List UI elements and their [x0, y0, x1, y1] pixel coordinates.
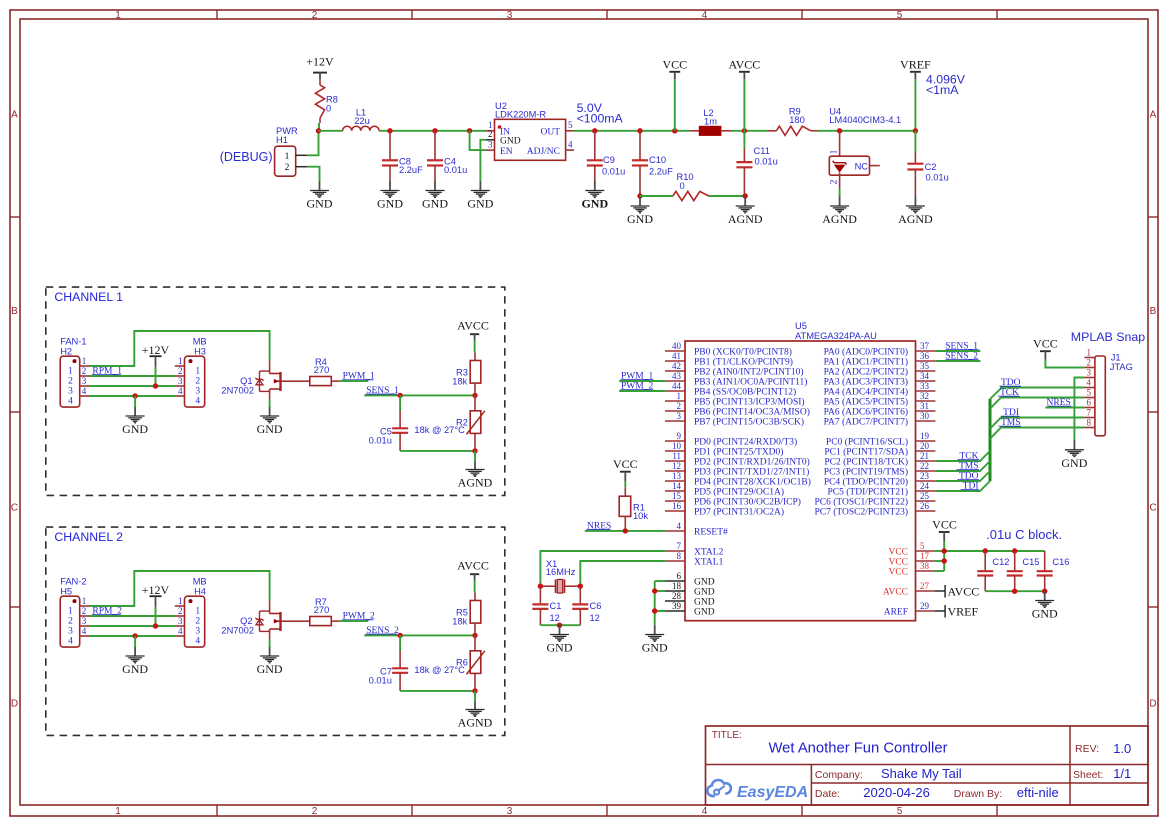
ground AGND under C11: [744, 196, 746, 206]
svg-text:C1: C1: [550, 601, 562, 611]
ground: [458, 710, 493, 730]
svg-text:4: 4: [178, 626, 183, 636]
svg-text:0.01u: 0.01u: [369, 676, 392, 686]
svg-text:H2: H2: [60, 347, 72, 357]
svg-text:28: 28: [672, 591, 682, 601]
svg-text:20: 20: [920, 441, 930, 451]
svg-text:29: 29: [920, 601, 930, 611]
svg-text:OUT: OUT: [540, 128, 560, 138]
ground: [422, 191, 448, 211]
label 5.0V <100mA: [577, 101, 624, 126]
svg-text:TITLE:: TITLE:: [712, 730, 742, 741]
svg-text:9: 9: [677, 431, 682, 441]
ground: [122, 416, 148, 436]
node GND pin18: [652, 588, 657, 593]
wire H1 pin2 to ground: [307, 167, 320, 181]
wire L2 to AVCC node: [731, 130, 768, 132]
svg-text:0.01u: 0.01u: [926, 172, 949, 182]
svg-text:3: 3: [178, 616, 183, 626]
svg-text:3: 3: [677, 411, 682, 421]
svg-text:PB3 (AIN1/OC0A/PCINT11): PB3 (AIN1/OC0A/PCINT11): [694, 377, 807, 388]
U5 pin 14 PD5: [665, 481, 784, 498]
ground AGND under U4: [839, 197, 841, 207]
svg-text:PB4 (SS/OC0B/PCINT12): PB4 (SS/OC0B/PCINT12): [694, 387, 796, 398]
svg-text:14: 14: [672, 481, 682, 491]
connector H4 (MB): [175, 577, 207, 647]
svg-text:PA3 (ADC3/PCINT3): PA3 (ADC3/PCINT3): [824, 377, 908, 388]
wire crystal caps bottom: [540, 624, 580, 626]
U5 pin 25 PC6: [814, 491, 935, 508]
svg-text:3: 3: [68, 387, 73, 397]
svg-text:PC2 (PCINT18/TCK): PC2 (PCINT18/TCK): [824, 457, 908, 468]
node VREF/C2 junction: [913, 128, 918, 133]
svg-text:42: 42: [672, 361, 681, 371]
wire TCK J1 side: [990, 398, 1084, 409]
wire RPM_2: [89, 615, 174, 617]
ground: [467, 191, 493, 211]
U5 pin 35 PA2: [824, 361, 936, 378]
wire AVCC drop: [743, 72, 745, 131]
ground: [377, 191, 403, 211]
U5 pin 16 PD7: [665, 501, 784, 518]
svg-text:Wet Another Fun Controller: Wet Another Fun Controller: [768, 741, 947, 757]
svg-text:PB1 (T1/CLKO/PCINT9): PB1 (T1/CLKO/PCINT9): [694, 357, 793, 368]
ground under C10: [639, 196, 641, 206]
svg-text:22u: 22u: [354, 116, 370, 126]
U5 pin 36 PA1: [824, 351, 936, 368]
svg-text:PA4 (ADC4/PCINT4): PA4 (ADC4/PCINT4): [824, 387, 908, 398]
svg-text:2.2uF: 2.2uF: [399, 165, 423, 175]
svg-text:PD2 (PCINT/RXD1/26/INT0): PD2 (PCINT/RXD1/26/INT0): [694, 457, 810, 468]
svg-text:15: 15: [672, 491, 682, 501]
node C15 bottom: [1012, 589, 1017, 594]
svg-text:44: 44: [672, 381, 682, 391]
U5 pin 1 PB5: [665, 391, 805, 408]
U5 pin 24 PC5: [828, 481, 936, 498]
wire TMS U5 side: [935, 461, 990, 471]
svg-text:31: 31: [920, 401, 929, 411]
U5 pin 21 PC2: [824, 451, 935, 468]
U5 pin 3 PB7: [665, 411, 804, 428]
resistor R5 18k: [452, 592, 481, 635]
microcontroller U5 ATMEGA324PA-AU: [685, 321, 916, 621]
svg-text:PD6 (PCINT30/OC2B/ICP): PD6 (PCINT30/OC2B/ICP): [694, 497, 801, 508]
U5 pin 6 GND: [665, 571, 715, 588]
node divider junction: [472, 633, 477, 638]
wire to AGND: [474, 451, 476, 461]
svg-text:J1: J1: [1111, 352, 1121, 362]
wire cap bottom to divider bottom: [400, 450, 475, 452]
U5 pin 2 PB6: [665, 401, 810, 418]
svg-text:VCC: VCC: [662, 58, 687, 72]
svg-text:Shake My Tail: Shake My Tail: [881, 766, 962, 781]
svg-text:2: 2: [82, 606, 87, 616]
node ground junction: [132, 633, 137, 638]
svg-text:H5: H5: [60, 587, 72, 597]
svg-text:NC: NC: [855, 161, 869, 171]
power symbol AVCC: [729, 58, 761, 72]
svg-text:33: 33: [920, 381, 930, 391]
ground AGND: [474, 461, 476, 470]
svg-text:1: 1: [195, 607, 200, 617]
wire TCK U5 side: [935, 451, 990, 461]
ground AGND under C2: [914, 197, 916, 207]
wire L1 to U2: [379, 130, 486, 132]
node X1 right: [578, 584, 583, 589]
svg-text:38: 38: [920, 561, 930, 571]
capacitor C12: [977, 551, 1009, 591]
svg-text:2: 2: [178, 606, 183, 616]
svg-text:PA0 (ADC0/PCINT0): PA0 (ADC0/PCINT0): [824, 347, 908, 358]
U5 pin 15 PD6: [665, 491, 801, 508]
svg-text:1: 1: [178, 356, 183, 366]
svg-text:Sheet:: Sheet:: [1073, 769, 1103, 781]
wire Q1 source to ground: [269, 399, 271, 407]
node cap junction: [397, 393, 402, 398]
svg-text:EN: EN: [500, 147, 513, 157]
svg-text:PD0 (PCINT24/RXD0/T3): PD0 (PCINT24/RXD0/T3): [694, 437, 797, 448]
svg-text:C: C: [1149, 503, 1156, 514]
port flag AVCC: [935, 584, 980, 598]
label 4.096V <1mA: [926, 73, 966, 98]
svg-text:5: 5: [568, 120, 573, 130]
wire NRES to J1 pin6: [1045, 407, 1084, 409]
svg-text:34: 34: [920, 371, 930, 381]
wire TDO U5 side: [935, 471, 990, 481]
capacitor C9: [587, 131, 625, 181]
ground: [307, 191, 333, 211]
connector H5 (FAN-2): [60, 577, 89, 647]
svg-text:18: 18: [672, 581, 682, 591]
svg-text:<1mA: <1mA: [926, 83, 959, 97]
svg-text:PA6 (ADC6/PCINT6): PA6 (ADC6/PCINT6): [824, 407, 908, 418]
wire R9 to U4/VREF: [818, 130, 915, 132]
resistor R1 10k: [619, 482, 648, 528]
svg-text:PA2 (ADC2/PCINT2): PA2 (ADC2/PCINT2): [824, 367, 908, 378]
svg-text:0.01u: 0.01u: [444, 165, 467, 175]
wire XTAL1: [580, 561, 665, 586]
wire to ground: [134, 636, 136, 647]
wire C10 to R10: [640, 195, 673, 197]
svg-text:PB6 (PCINT14/OC3A/MISO): PB6 (PCINT14/OC3A/MISO): [694, 407, 810, 418]
svg-text:GND: GND: [257, 662, 283, 676]
svg-text:3: 3: [1087, 368, 1092, 378]
thermistor R2 18k @ 27°C: [414, 395, 484, 451]
svg-text:.01u C block.: .01u C block.: [986, 527, 1062, 542]
svg-text:1m: 1m: [704, 116, 717, 126]
connector J1 JTAG: [1084, 348, 1132, 436]
wire H5 pin1 to Q2 drain: [89, 571, 269, 606]
U5 pin 17 VCC: [888, 551, 934, 568]
transistor Q2 2N7002: [221, 601, 309, 640]
svg-text:2020-04-26: 2020-04-26: [863, 785, 930, 800]
svg-text:XTAL1: XTAL1: [694, 558, 724, 568]
svg-text:2: 2: [1087, 358, 1092, 368]
U5 pin 7 XTAL2: [665, 541, 724, 558]
svg-text:5: 5: [1087, 388, 1092, 398]
svg-text:AGND: AGND: [458, 716, 493, 730]
node C12 top: [983, 548, 988, 553]
wire R10 to AGND node: [709, 195, 746, 197]
wire Q2 source to ground: [269, 639, 271, 647]
svg-text:2: 2: [830, 179, 840, 184]
wire H2 pin1 to Q1 drain: [89, 331, 269, 366]
node AVCC junction: [742, 128, 747, 133]
U5 pin 40 PB0: [665, 341, 792, 358]
svg-text:12: 12: [590, 613, 600, 623]
ground under J1: [1073, 440, 1075, 450]
svg-text:PD7 (PCINT31/OC2A): PD7 (PCINT31/OC2A): [694, 507, 784, 518]
svg-text:XTAL2: XTAL2: [694, 548, 724, 558]
svg-text:2: 2: [285, 163, 290, 173]
resistor R10: [673, 172, 709, 201]
svg-text:5: 5: [897, 10, 903, 21]
wire RPM_1: [89, 375, 174, 377]
svg-text:3: 3: [82, 616, 87, 626]
svg-text:41: 41: [672, 351, 681, 361]
svg-text:2N7002: 2N7002: [221, 626, 254, 636]
svg-text:1: 1: [115, 806, 121, 817]
U5 pin 20 PC1: [824, 441, 935, 458]
wire SENS_1: [364, 394, 475, 396]
svg-text:GND: GND: [694, 578, 715, 588]
svg-text:30: 30: [920, 411, 930, 421]
svg-text:1: 1: [830, 149, 840, 154]
U5 pin 32 PA5: [824, 391, 936, 408]
svg-text:VCC: VCC: [888, 568, 908, 578]
wire SENS_2: [935, 360, 980, 362]
ground: [822, 206, 857, 226]
power symbol VCC at U5 right: [932, 517, 957, 541]
node ground junction: [132, 393, 137, 398]
resistor R7 270: [310, 597, 340, 626]
svg-text:CHANNEL 1: CHANNEL 1: [54, 290, 123, 304]
svg-text:23: 23: [920, 471, 930, 481]
svg-text:AGND: AGND: [728, 212, 763, 226]
svg-text:GND: GND: [547, 641, 573, 655]
svg-text:8: 8: [1087, 418, 1092, 428]
svg-text:Drawn By:: Drawn By:: [954, 788, 1002, 800]
svg-text:18k @ 27°C: 18k @ 27°C: [414, 665, 465, 675]
svg-text:C6: C6: [590, 601, 602, 611]
U5 pin 4 RESET#: [665, 521, 728, 538]
svg-text:AVCC: AVCC: [948, 584, 980, 598]
wire SENS_2: [364, 634, 475, 636]
U5 pin 29 AREF: [884, 601, 935, 618]
ground: [898, 206, 933, 226]
svg-text:GND: GND: [122, 662, 148, 676]
U5 pin 43 PB3: [665, 371, 807, 388]
svg-text:0.01u: 0.01u: [602, 167, 625, 177]
svg-text:GND: GND: [122, 422, 148, 436]
svg-text:A: A: [1150, 110, 1157, 121]
wire cap bottom to divider bottom: [400, 690, 475, 692]
svg-text:PC7 (TOSC2/PCINT23): PC7 (TOSC2/PCINT23): [814, 507, 908, 518]
svg-text:6: 6: [677, 571, 682, 581]
svg-text:40: 40: [672, 341, 682, 351]
node AGND junction: [472, 448, 477, 453]
svg-text:2: 2: [488, 129, 493, 139]
U5 pin 41 PB1: [665, 351, 793, 368]
svg-text:27: 27: [920, 581, 930, 591]
svg-text:PC1 (PCINT17/SDA): PC1 (PCINT17/SDA): [824, 447, 908, 458]
svg-text:3: 3: [488, 139, 493, 149]
svg-text:AVCC: AVCC: [457, 318, 489, 332]
svg-text:C9: C9: [603, 155, 615, 165]
svg-text:PC0 (PCINT16/SCL): PC0 (PCINT16/SCL): [826, 437, 908, 448]
svg-text:2: 2: [195, 377, 200, 387]
svg-text:39: 39: [672, 601, 682, 611]
svg-text:2: 2: [312, 806, 318, 817]
svg-text:25: 25: [920, 491, 930, 501]
capacitor C1 12: [532, 586, 561, 625]
svg-text:21: 21: [920, 451, 929, 461]
svg-text:GND: GND: [581, 197, 608, 211]
svg-text:0: 0: [326, 103, 331, 113]
crystal X1 16MHz: [540, 559, 580, 593]
resistor R3 18k: [452, 352, 481, 395]
svg-text:H4: H4: [194, 587, 206, 597]
svg-text:26: 26: [920, 501, 930, 511]
wire C block bottom: [985, 590, 1044, 592]
svg-text:EasyEDA: EasyEDA: [737, 784, 808, 801]
shunt reference U4 LM4040CIM3-4.1: [829, 106, 901, 188]
wire PWM_1: [619, 380, 665, 382]
transistor Q1 2N7002: [221, 361, 309, 400]
wire U2 pin2 GND to ground: [480, 140, 486, 181]
svg-text:VCC: VCC: [932, 517, 957, 531]
node C10 bottom junction: [637, 193, 642, 198]
svg-text:+12V: +12V: [306, 54, 334, 68]
wire VREF drop: [914, 72, 916, 131]
wire NRES: [585, 530, 665, 532]
svg-text:GND: GND: [307, 197, 333, 211]
ground: [581, 191, 608, 211]
power symbol +12V: [306, 54, 334, 79]
svg-text:VREF: VREF: [948, 604, 979, 618]
capacitor C5 0.01u: [369, 395, 408, 451]
U5 pin 30 PA7: [824, 411, 936, 428]
svg-text:32: 32: [920, 391, 929, 401]
U5 pin 10 PD1: [665, 441, 783, 458]
wire R1 to NRES: [624, 528, 626, 531]
svg-text:LM4040CIM3-4.1: LM4040CIM3-4.1: [829, 115, 901, 125]
svg-text:FAN-2: FAN-2: [60, 577, 86, 587]
wire H2 pin3 to H3 pin3: [89, 385, 174, 387]
svg-text:1: 1: [195, 367, 200, 377]
svg-text:CHANNEL 2: CHANNEL 2: [54, 530, 123, 544]
svg-text:3: 3: [507, 806, 513, 817]
svg-text:MB: MB: [193, 577, 207, 587]
wire PWM_2: [340, 620, 369, 622]
svg-text:AVCC: AVCC: [883, 588, 908, 598]
svg-text:ADJ/NC: ADJ/NC: [527, 147, 560, 157]
svg-text:MPLAB Snap: MPLAB Snap: [1071, 330, 1145, 344]
svg-text:VREF: VREF: [900, 58, 931, 72]
svg-text:4: 4: [1087, 378, 1092, 388]
svg-text:PD5 (PCINT29/OC1A): PD5 (PCINT29/OC1A): [694, 487, 784, 498]
svg-text:A: A: [11, 110, 18, 121]
power symbol VCC: [662, 58, 687, 72]
ground: [1061, 450, 1087, 470]
node VCC junction: [672, 128, 677, 133]
svg-text:VCC: VCC: [888, 558, 908, 568]
svg-text:MB: MB: [193, 337, 207, 347]
svg-text:1.0: 1.0: [1113, 741, 1131, 756]
svg-text:H3: H3: [194, 347, 206, 357]
svg-text:37: 37: [920, 341, 930, 351]
ground under C4: [434, 181, 436, 191]
svg-text:4: 4: [68, 637, 73, 647]
svg-text:GND: GND: [422, 197, 448, 211]
wire U5 GND pins rail: [655, 581, 665, 625]
svg-text:4: 4: [568, 139, 573, 149]
wire H1 pin1 to +12V rail: [307, 131, 319, 156]
ground: [728, 206, 763, 226]
U5 pin 31 PA6: [824, 401, 936, 418]
svg-text:180: 180: [789, 115, 805, 125]
ground under C8: [389, 181, 391, 191]
U5 pin 23 PC4: [824, 471, 936, 488]
svg-text:18k @ 27°C: 18k @ 27°C: [414, 425, 465, 435]
svg-text:1: 1: [82, 356, 87, 366]
node C15 top: [1012, 548, 1017, 553]
svg-text:RESET#: RESET#: [694, 528, 728, 538]
svg-text:H1: H1: [276, 135, 288, 145]
wire VCC to J1 pin2: [1045, 360, 1084, 368]
svg-text:12: 12: [550, 613, 560, 623]
ground under Q2: [269, 647, 271, 656]
svg-text:1/1: 1/1: [1113, 766, 1131, 781]
U5 pin 44 PB4: [665, 381, 796, 398]
svg-text:GND: GND: [1032, 607, 1058, 621]
svg-text:0: 0: [680, 181, 685, 191]
svg-text:35: 35: [920, 361, 930, 371]
svg-text:VCC: VCC: [1033, 337, 1058, 351]
svg-text:GND: GND: [642, 641, 668, 655]
ground: [547, 635, 573, 655]
U5 pin 39 GND: [665, 601, 715, 618]
wire U4 to AGND: [839, 188, 841, 197]
U5 pin 42 PB2: [665, 361, 804, 378]
resistor R4 270: [310, 357, 340, 386]
svg-text:16: 16: [672, 501, 682, 511]
capacitor C7 0.01u: [369, 635, 408, 691]
svg-text:270: 270: [314, 605, 330, 615]
U5 pin 13 PD4: [665, 471, 811, 488]
U5 pin 37 PA0: [824, 341, 936, 358]
ground under C9: [594, 181, 596, 191]
ground: [122, 656, 148, 676]
EasyEDA logo: [707, 780, 808, 801]
svg-text:C2: C2: [925, 162, 937, 172]
svg-text:1: 1: [68, 607, 73, 617]
node C4 junction: [432, 128, 437, 133]
svg-text:3: 3: [507, 10, 513, 21]
svg-text:GND: GND: [694, 598, 715, 608]
svg-text:13: 13: [672, 471, 682, 481]
svg-text:0.01u: 0.01u: [369, 436, 392, 446]
svg-text:PB0 (XCK0/T0/PCINT8): PB0 (XCK0/T0/PCINT8): [694, 347, 792, 358]
svg-text:PB2 (AIN0/INT2/PCINT10): PB2 (AIN0/INT2/PCINT10): [694, 367, 804, 378]
svg-text:2: 2: [82, 366, 87, 376]
svg-text:<100mA: <100mA: [577, 112, 624, 126]
channel 2 block: [46, 527, 505, 735]
U5 pin 22 PC3: [824, 461, 936, 478]
svg-text:6: 6: [1087, 398, 1092, 408]
ground under crystal: [559, 625, 561, 634]
svg-text:36: 36: [920, 351, 930, 361]
